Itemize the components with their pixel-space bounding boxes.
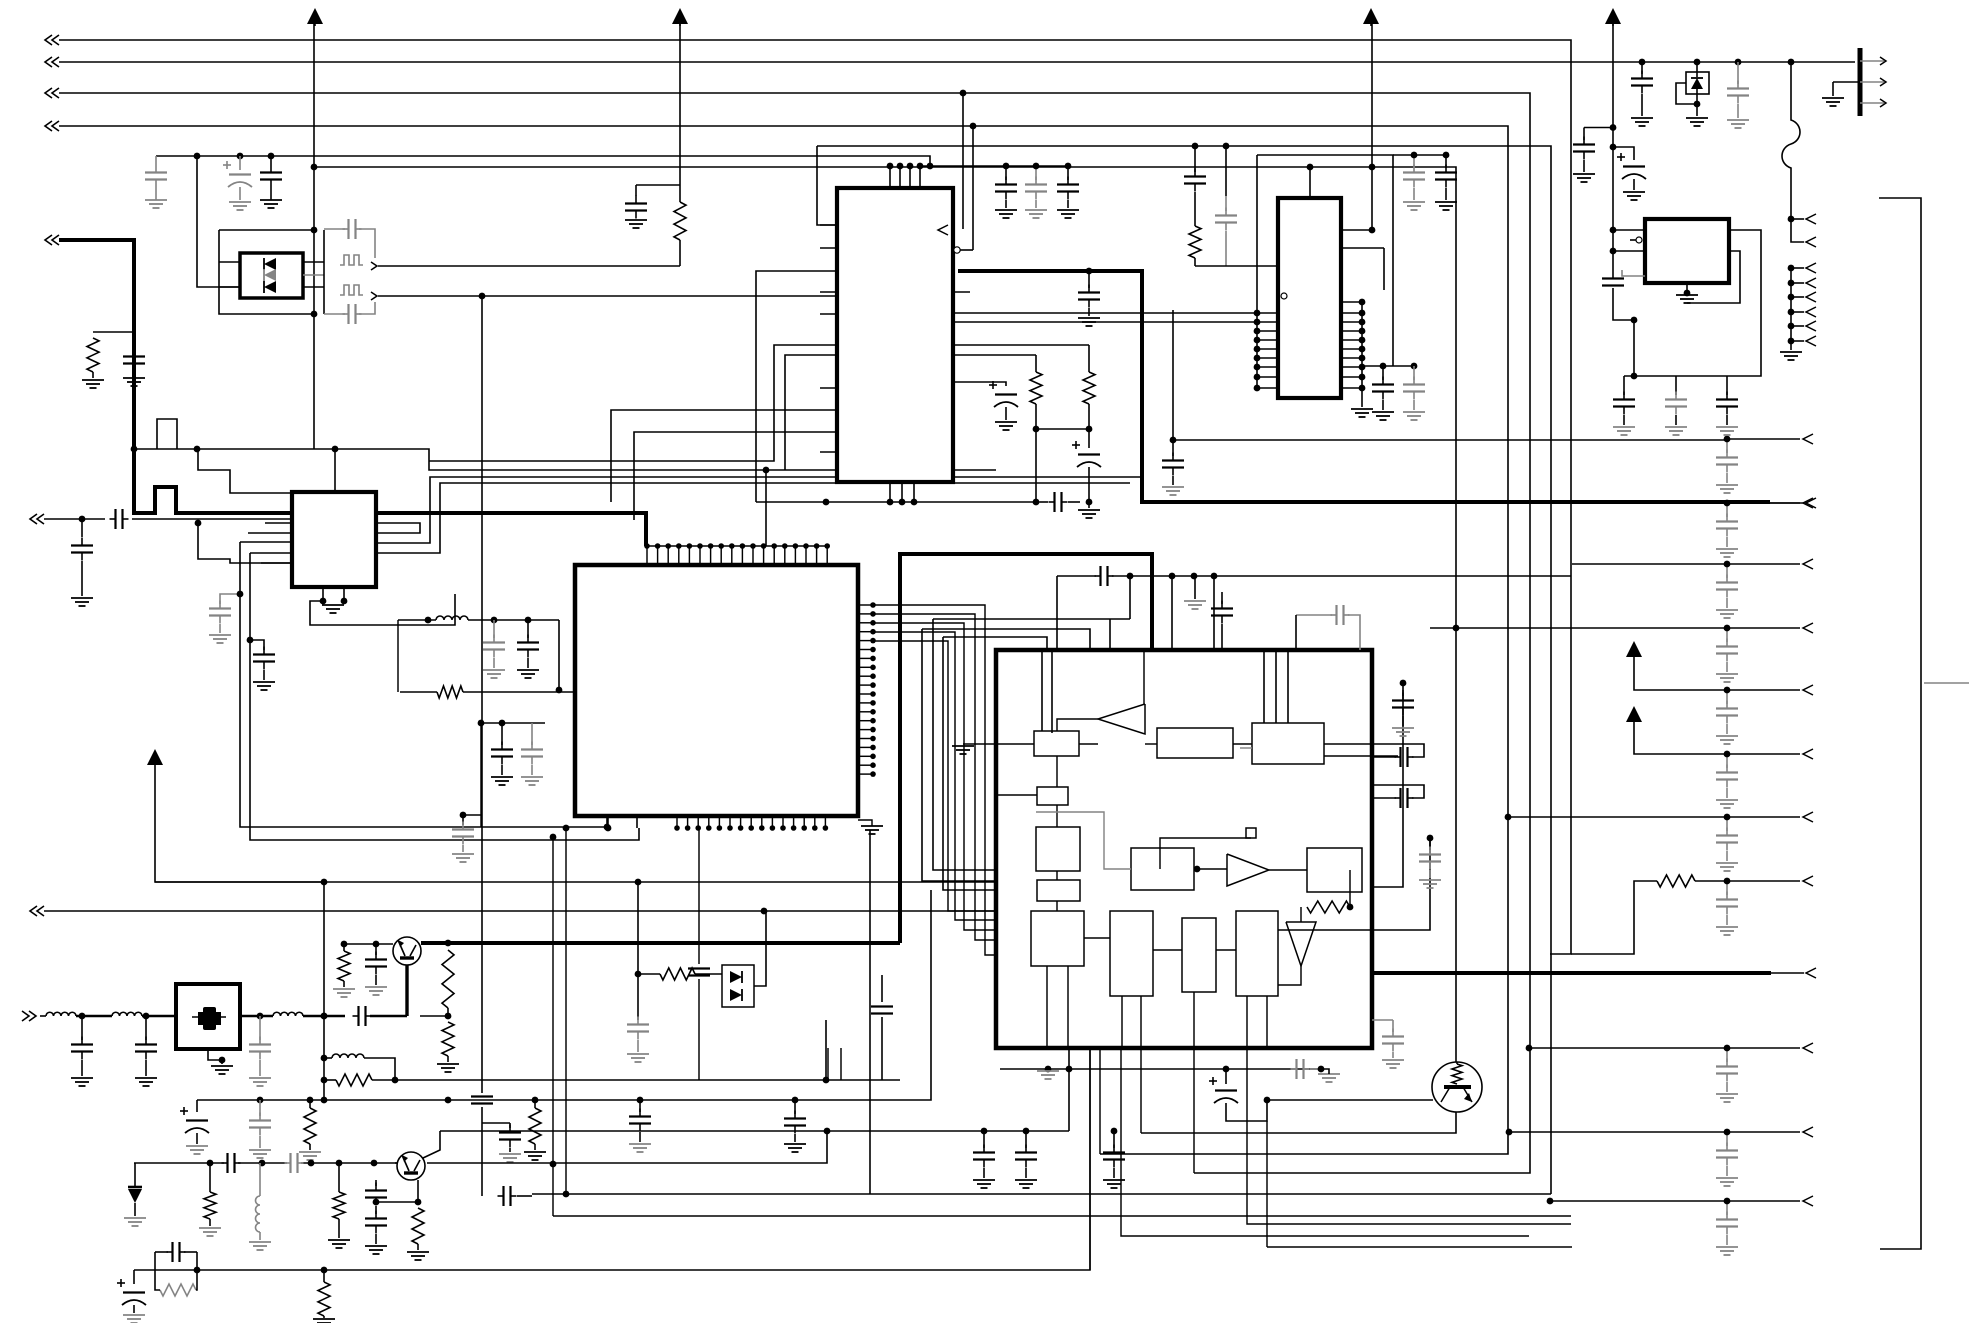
wire u4 in2 — [1613, 250, 1645, 252]
node v2 1642 — [1639, 59, 1646, 66]
capacitor C57 — [521, 723, 543, 785]
node 1173 — [1170, 437, 1177, 444]
power arrow P1 — [307, 8, 323, 26]
node 1069a — [1066, 1066, 1073, 1073]
zener D3 — [1676, 62, 1708, 126]
ic U6 qfp — [575, 565, 858, 816]
wire y1080 ext — [826, 1079, 900, 1081]
wire u1 left pins — [429, 225, 837, 520]
polarized C26 — [1613, 147, 1646, 200]
wire u1 right pins sm — [953, 292, 1257, 322]
block B5 — [1036, 827, 1080, 871]
node d2 — [635, 971, 642, 978]
capacitor C59b — [1015, 1128, 1037, 1188]
capacitor C52 series — [155, 1242, 197, 1270]
capacitor C6 — [123, 335, 145, 387]
wire rail628 — [1430, 625, 1727, 632]
block B3 — [1252, 723, 1324, 764]
resistor R7 — [1571, 875, 1727, 954]
wire thick branch — [93, 331, 134, 333]
node opto t — [311, 227, 318, 234]
diode opto D-b — [264, 269, 276, 281]
block B13 — [1307, 848, 1362, 892]
arrow up A6 — [147, 749, 163, 765]
capacitor C49 series2 — [285, 1153, 304, 1173]
inductor L5 — [324, 1054, 395, 1080]
wire Lbund 3 — [943, 637, 1047, 650]
capacitor C4 series top — [324, 219, 375, 258]
wire blk int10 — [1278, 929, 1372, 931]
node q1b — [373, 941, 380, 948]
node 1267 — [1264, 1097, 1271, 1104]
nodes y1100 — [257, 1097, 644, 1104]
node l7 b — [525, 617, 532, 624]
wire q3 base — [1267, 1099, 1433, 1101]
wire q1 rail — [344, 943, 393, 945]
node rf2 — [143, 1013, 150, 1020]
wire u3 brail — [1362, 363, 1417, 370]
capacitor C7 — [625, 185, 647, 228]
wire u1 top pins — [887, 163, 924, 188]
inductor L7 — [398, 616, 559, 620]
polarized C16 — [989, 381, 1018, 430]
capacitor CR0 — [1716, 436, 1738, 493]
capacitor C23 — [1372, 366, 1394, 420]
wire thick blk feed — [900, 554, 1152, 943]
node u4 loop — [1631, 317, 1638, 324]
resistor R4 — [1083, 345, 1095, 429]
capacitor C27 — [1631, 62, 1653, 126]
wire blk int7 — [1084, 938, 1236, 950]
wire Lbund L1 — [933, 619, 996, 870]
wire x324 vert — [321, 879, 328, 1100]
capacitor CR7 — [1716, 878, 1738, 935]
arrow up A5 — [1626, 706, 1727, 754]
polarized C45 — [180, 1100, 209, 1154]
wire rail y167 — [311, 164, 1456, 1062]
resistor R18 — [313, 1270, 335, 1323]
wire y1100 rail — [197, 890, 931, 1100]
capacitor C25 — [1162, 440, 1184, 495]
resistor R16 — [407, 1208, 429, 1260]
node y1131 b — [1111, 1128, 1118, 1135]
wire u4 in1 — [1613, 229, 1645, 231]
wire x766 drop — [763, 467, 770, 546]
capacitor C3 — [260, 156, 282, 208]
wire x155 vert — [155, 765, 323, 882]
wire rail-arrow y754 — [1727, 749, 1813, 759]
wire u3 pin2 r — [1341, 164, 1375, 234]
node g1048 — [1045, 1066, 1052, 1073]
node rail449 l — [194, 446, 201, 453]
wire rail-arrow y1048 — [1727, 1043, 1813, 1053]
wire c21 up — [1223, 143, 1230, 196]
amp A3 down — [1286, 922, 1316, 966]
block B8 — [1110, 911, 1153, 996]
wire rail-arrow y817 — [1727, 812, 1813, 822]
wire u2 bot loop — [310, 594, 455, 625]
crystal filter X1 — [176, 984, 240, 1049]
capacitor CR6 — [1716, 814, 1738, 871]
wire u3 pin3 r — [1341, 247, 1384, 249]
wire blkbot rail1069 — [1000, 1068, 1321, 1070]
wire blk int2 — [1057, 650, 1144, 787]
wire y1131 rail — [440, 1130, 1069, 1132]
wire 1172 drop — [1171, 576, 1173, 650]
ground u3 — [1351, 409, 1373, 417]
wire Lbund L3 — [943, 637, 996, 890]
wire rf3 — [142, 1015, 176, 1018]
wire rail-arrow y881 — [1727, 876, 1813, 886]
capacitor C2 polarized — [223, 156, 252, 210]
wire staircase2 — [198, 449, 292, 493]
block B12 — [1131, 848, 1194, 890]
wire u2 top pin — [334, 449, 336, 492]
node 1321 — [1318, 1066, 1325, 1073]
wire x828 step — [827, 1048, 829, 1080]
capacitor C42 — [249, 1016, 271, 1086]
wire blk int3 — [1056, 805, 1058, 911]
block B2 — [1157, 728, 1233, 758]
capacitor C41 — [135, 1016, 157, 1086]
wire bus V5 — [817, 146, 1551, 1194]
wire r3 down — [1033, 429, 1040, 505]
wire rail1048 — [1526, 1045, 1727, 1052]
wire blk int9 — [1240, 744, 1398, 756]
wire b4 left pin — [996, 794, 1037, 796]
wire bus V1 top — [45, 35, 1571, 954]
wire u2 bottom — [320, 587, 348, 604]
resistor R3 — [1030, 355, 1042, 429]
wire r2 down — [679, 240, 681, 266]
node y146 1195 — [1192, 143, 1199, 150]
wire u3cap rail — [1393, 154, 1446, 156]
capacitor C43 series — [353, 1006, 408, 1026]
node y1270 b — [321, 1267, 328, 1274]
wire vert x482 — [479, 293, 486, 1093]
amp A1 left — [1098, 704, 1145, 734]
resistor R12 — [299, 1100, 321, 1160]
resistor R17 — [155, 1270, 197, 1296]
block B1 — [1034, 731, 1079, 756]
polarized C51 — [117, 1270, 146, 1323]
node rf3 — [257, 1013, 264, 1020]
node u2 top — [332, 446, 339, 453]
node u4 in1 — [1610, 227, 1617, 234]
wire d2 out — [754, 908, 767, 986]
wire u6 top pins — [644, 543, 830, 565]
wire 1195 drop — [1194, 576, 1196, 599]
wire rail u1 caps — [920, 165, 1070, 167]
wire u4 bot pin — [1676, 283, 1698, 303]
wire q1 base — [405, 958, 408, 1016]
wire u3 left rail — [1256, 155, 1258, 388]
node ind l7 — [425, 617, 432, 624]
wire bus V3 — [45, 88, 1530, 1173]
node v2 1738 — [1735, 59, 1742, 66]
wire u6 gnd lnk — [858, 820, 872, 826]
capacitor CT1 — [1665, 376, 1687, 435]
node y1163 b — [259, 1160, 266, 1167]
wire q2 coll — [423, 1131, 440, 1158]
wire u6 l bundle — [397, 620, 399, 692]
wire x882 drop — [871, 975, 893, 1080]
node 1226 — [1223, 1066, 1230, 1073]
fan arrows grp2 — [1780, 263, 1816, 360]
wire blk int1 — [1079, 743, 1252, 745]
capacitor C46 — [249, 1100, 271, 1158]
ground terminator — [1822, 82, 1858, 106]
node q1 coll — [445, 940, 452, 947]
capacitor C14-0 — [995, 166, 1017, 218]
node y1080 — [823, 1077, 830, 1084]
capacitor C38 series — [1291, 1059, 1322, 1079]
wire blk int5 — [1269, 869, 1307, 871]
polarized C37 — [1209, 1069, 1267, 1121]
capacitor C59 — [1103, 1131, 1125, 1188]
resistor R5 — [1189, 226, 1201, 266]
wire power V1613 — [1612, 24, 1614, 251]
wire q2 base — [395, 1162, 397, 1164]
node u4 in2 — [1610, 248, 1617, 255]
polarized C17 — [1072, 429, 1101, 478]
wire v3 drop — [960, 90, 967, 229]
wire bb x1267 — [1266, 1121, 1268, 1247]
wire opto loop — [219, 230, 324, 314]
wire u6 botl pins — [605, 816, 637, 831]
capacitor C33 — [1372, 744, 1424, 767]
wire u6 bot pins — [674, 816, 828, 831]
capacitor C10 — [209, 594, 240, 643]
wire blk int8 — [1278, 870, 1353, 985]
node y1163 a — [207, 1160, 214, 1167]
capacitor C1 — [145, 156, 167, 208]
fan arrows grp1 — [1788, 214, 1816, 247]
wire c51 lnk — [134, 1269, 155, 1271]
resistor R14 — [199, 1163, 221, 1236]
node y1163 e — [371, 1160, 378, 1167]
wire bb x1121 — [1121, 1048, 1529, 1236]
wire y1163 — [134, 1162, 397, 1164]
block B4 — [1037, 787, 1068, 805]
wire u3 right rail — [1361, 302, 1363, 407]
wire bb x1090 — [1089, 1048, 1091, 1270]
capacitor C60 — [784, 1100, 806, 1152]
wire rf4 — [240, 1015, 273, 1018]
wire rail-arrow y1132 — [1727, 1127, 1813, 1137]
capacitor C18 series — [1040, 492, 1080, 512]
wire staircase — [131, 419, 177, 452]
node opto b — [311, 311, 318, 318]
crystal sym — [192, 1007, 226, 1030]
clock pin u1 — [938, 225, 948, 235]
node y1163 c — [308, 1160, 315, 1167]
zener D3 box — [1686, 72, 1709, 94]
diode D2a — [730, 971, 742, 983]
node c8 — [79, 516, 86, 523]
ground u2 — [322, 605, 344, 613]
wire u2 left pins — [240, 523, 292, 563]
wire pwr b1 — [1573, 128, 1613, 183]
wire power V1371 — [1371, 24, 1373, 230]
node y1270 a — [194, 1267, 201, 1274]
resistor R9 — [442, 950, 454, 1016]
node rail156 c — [268, 153, 275, 160]
wire rail-arrow y628 — [1727, 623, 1813, 633]
capacitor C36 — [1419, 838, 1441, 888]
wire rf2 — [76, 1015, 112, 1018]
wire u4 loop3 — [1613, 251, 1637, 379]
wire u6 misc — [480, 723, 482, 827]
wire blk int4 — [1160, 838, 1251, 872]
wire pulse out1 — [378, 265, 680, 267]
wire 1130 drop — [1129, 576, 1131, 619]
capacitor CR1 — [1716, 500, 1738, 557]
wire c7 link — [636, 184, 680, 186]
node r11a — [321, 1077, 328, 1084]
wire x870 drop — [869, 830, 871, 1194]
capacitor C14-1 — [1025, 166, 1047, 218]
amp A2 right — [1227, 854, 1269, 886]
wire 1069 up — [1068, 1048, 1070, 1069]
capacitor CR9 — [1716, 1129, 1738, 1186]
inv pin u4 — [1630, 237, 1642, 243]
resistor R20 — [400, 686, 575, 698]
capacitor C32 series h — [1296, 605, 1360, 650]
wire u3 left pins — [1254, 310, 1278, 392]
node r11b — [392, 1077, 399, 1084]
node c10 — [237, 591, 244, 598]
capacitor C39 — [1382, 1020, 1404, 1068]
ic U4 — [1645, 219, 1729, 283]
capacitor C55 — [517, 620, 539, 678]
node l5 — [321, 1055, 328, 1062]
wire rail576 — [1057, 566, 1571, 586]
wire x841 step — [840, 1048, 842, 1080]
wire q2 em — [373, 1180, 422, 1205]
wire blk right887 — [1372, 680, 1406, 887]
inductor L2 — [46, 1012, 76, 1016]
wire blk bot drops — [1047, 966, 1267, 1048]
capacitor CT0 — [1613, 376, 1635, 435]
capacitor C31 — [1211, 592, 1233, 650]
wire power V315 — [313, 24, 315, 449]
capacitor C28 — [1727, 62, 1749, 128]
wire rail1132 — [1506, 1129, 1727, 1136]
node l7 a — [491, 617, 498, 624]
capacitor CR8 — [1716, 1045, 1738, 1102]
bus terminator — [1860, 48, 1886, 116]
capacitor C22-0 — [1403, 152, 1425, 210]
inv pin u3a — [1281, 293, 1287, 299]
diode opto D-c — [264, 281, 276, 293]
wire rail-arrow y503 — [1727, 498, 1813, 508]
resistor R19 — [638, 968, 722, 980]
wire rail817 — [1505, 814, 1727, 821]
wire bus V2 — [45, 57, 1855, 67]
wire c20 up — [1194, 146, 1196, 166]
capacitor C53 — [627, 1017, 649, 1063]
block B10 — [1236, 911, 1278, 996]
diode D1 — [124, 1163, 146, 1226]
capacitor CT2 — [1716, 376, 1738, 435]
capacitor C15 — [1078, 271, 1100, 326]
inductor L4 — [273, 1012, 303, 1016]
resistor R6 — [1307, 901, 1350, 913]
wire u2 right pins — [376, 477, 1142, 553]
capacitor CR4 — [1716, 687, 1738, 744]
node rf x324 — [321, 1013, 328, 1020]
capacitor CR2 — [1716, 561, 1738, 618]
wire rail564 — [1572, 563, 1727, 565]
wire blk top drops — [1042, 650, 1288, 733]
wire pulse out2 — [378, 295, 837, 297]
wire rail449 — [134, 449, 996, 470]
node rf1 — [79, 1013, 86, 1020]
ic U3 — [1278, 198, 1341, 398]
capacitor CR10 — [1716, 1198, 1738, 1255]
pulse glyph PG1 — [340, 255, 377, 270]
wire u1 rp 345 — [953, 344, 1089, 346]
arrow up A4 — [1626, 641, 1727, 690]
wire u1 bot pins — [887, 482, 918, 505]
wire bus y1134 — [1141, 1062, 1456, 1133]
wire blk int6 — [1036, 812, 1131, 869]
node rail156 b — [237, 153, 244, 160]
node pwr 127 — [1610, 124, 1617, 131]
bracket dash — [1924, 682, 1969, 684]
wire bb x1194 — [1193, 1048, 1195, 1173]
capacitor C20 — [1184, 166, 1206, 226]
wire x566 up — [563, 825, 570, 1198]
block B9 — [1182, 918, 1216, 992]
capacitor CR3 — [1716, 625, 1738, 682]
node rail156 a — [194, 153, 201, 160]
wire rail1201 — [1547, 1198, 1727, 1205]
wire left bundle — [240, 542, 639, 840]
block B11 small — [1246, 828, 1256, 838]
wire rail y156 — [156, 156, 933, 169]
power arrow P3 — [1363, 8, 1379, 26]
node pwr 147 — [1610, 144, 1617, 151]
ic U5 main block — [996, 650, 1372, 1048]
transistor Q1 — [393, 937, 421, 965]
resistor R10 — [437, 1022, 459, 1072]
capacitor C35 — [1392, 690, 1414, 736]
bracket right — [1879, 198, 1921, 1249]
node v2 1791 — [1788, 59, 1795, 66]
wire bb x1141 — [1140, 1048, 1142, 1133]
ground 1325 — [1318, 1074, 1340, 1082]
wire u1 rp 355 — [953, 354, 1036, 356]
wire r5 c21 join — [1195, 265, 1278, 267]
ic U2 — [292, 492, 376, 587]
wire u4 left low — [1622, 270, 1645, 276]
power arrow P2 — [672, 8, 688, 26]
wire 1214 drop — [1213, 576, 1215, 650]
capacitor C22-1 — [1435, 152, 1457, 210]
wire 448 lnk — [420, 1015, 448, 1017]
capacitor C5 series bot — [324, 302, 375, 324]
wire bus V4 — [45, 121, 1508, 1154]
wire u3 loop — [1257, 155, 1393, 366]
wire q1 coll thick — [421, 941, 900, 945]
wire v4 drop — [970, 123, 977, 250]
wire y1164 bus — [427, 1128, 830, 1163]
ic U1 — [837, 188, 953, 482]
wire rail-arrow y690 — [1727, 685, 1813, 695]
wire bb x1100 — [1099, 1048, 1101, 1154]
